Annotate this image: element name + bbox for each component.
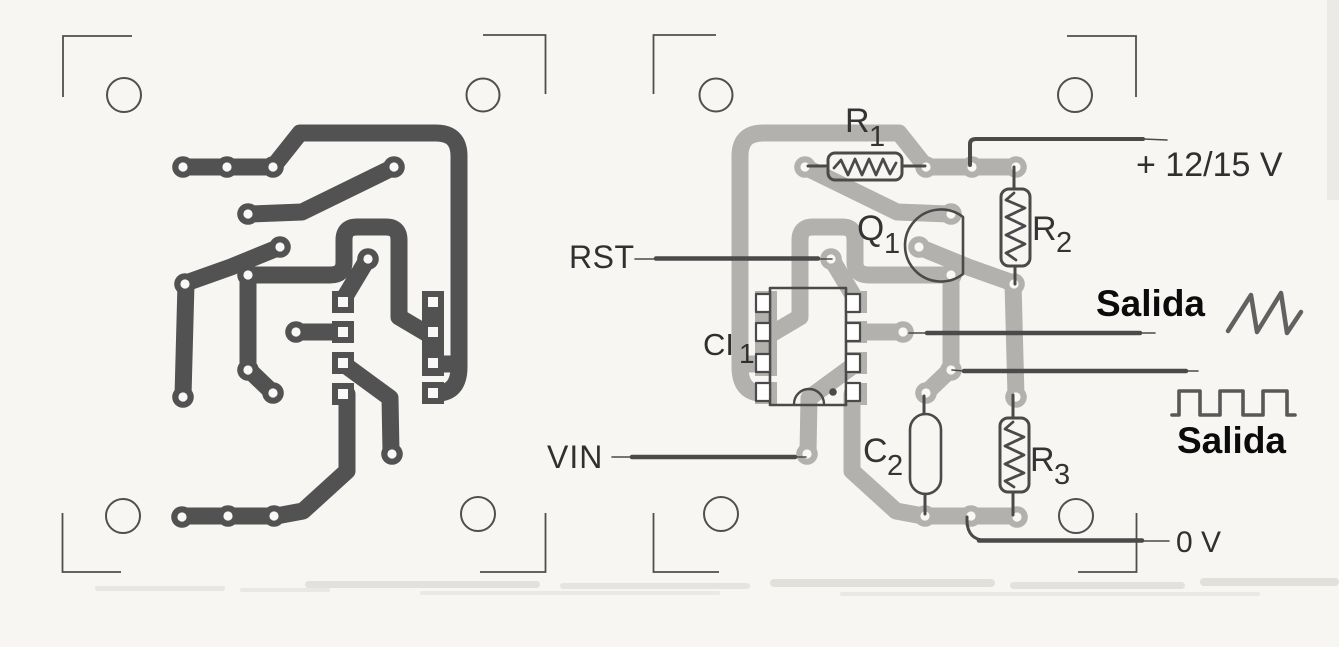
wire 0V [967,517,1169,541]
wire VIN [612,456,806,458]
svg-text:RST: RST [569,239,635,275]
label R3 [1030,441,1070,491]
svg-text:2: 2 [1056,227,1072,259]
component overlay [547,102,1301,559]
svg-text:R: R [1032,210,1057,248]
IC CI1 body (DIP-8) [770,288,846,405]
CI1 pin1 dot [829,388,837,396]
wire salida sawtooth output [909,332,1155,334]
svg-text:3: 3 [1054,459,1070,491]
svg-text:Salida: Salida [1096,283,1205,324]
label CI1 [703,327,755,369]
CI1 notch [794,389,824,404]
label Q1 [857,209,900,260]
svg-text:Q: Q [857,209,884,248]
svg-text:C: C [863,432,888,470]
svg-text:0 V: 0 V [1176,526,1221,559]
wire +12/15V [970,139,1167,165]
ghost copper layer component side (right board, mirrored) [654,35,1137,572]
faint right edge scan band [1327,0,1339,200]
wire salida square output [952,370,1198,371]
capacitor C2 [910,396,941,514]
wire RST [635,258,832,261]
sawtooth waveform icon [1228,293,1301,333]
resistor R1 [808,153,925,180]
board frame left [63,35,546,572]
svg-text:Salida: Salida [1177,420,1286,461]
svg-text:R: R [845,102,870,140]
resistor R3 [1000,395,1029,515]
copper layer solder side (left board) [171,133,459,528]
svg-text:1: 1 [884,228,900,260]
label C2 [863,432,903,482]
CI1 pins left [756,294,770,401]
label R2 [1032,210,1072,259]
svg-text:+ 12/15 V: + 12/15 V [1136,146,1283,184]
svg-text:VIN: VIN [547,439,603,475]
CI1 pins right [846,294,860,401]
svg-text:R: R [1030,441,1055,479]
label R1 [845,102,885,153]
transistor Q1 [905,210,963,282]
resistor R2 [1001,167,1030,284]
svg-text:CI: CI [703,327,734,362]
scan bleed-through noise bottom [95,578,1339,596]
square waveform icon [1172,391,1295,415]
svg-text:2: 2 [887,450,903,482]
svg-text:1: 1 [739,338,755,369]
svg-text:1: 1 [869,121,885,153]
